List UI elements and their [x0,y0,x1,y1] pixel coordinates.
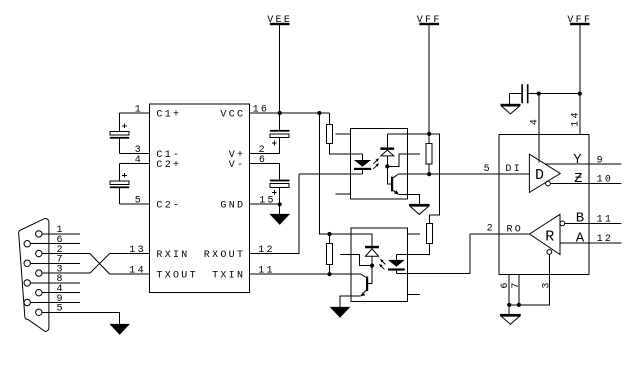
svg-text:D: D [535,167,544,184]
node DI junction [427,172,431,176]
node U4 pin 6 junction [507,303,511,307]
wire J1 pin 4 [42,284,80,295]
svg-text:R: R [545,229,554,246]
svg-text:VCC: VCC [220,109,245,120]
wire U4 input B with bubble [560,211,622,227]
U3 light arrows [379,259,385,269]
svg-text:15: 15 [259,196,276,207]
wire U3 emitter to ground [340,296,361,307]
svg-text:7: 7 [511,280,522,288]
svg-text:Z: Z [574,171,582,187]
capacitor C1 [110,113,129,154]
wire crossover TX/RX [90,254,110,275]
svg-text:6: 6 [259,155,267,166]
U2 NC stub bottom-left [336,193,351,195]
svg-text:13: 13 [129,245,146,256]
capacitor C2 [110,164,129,205]
optocoupler U3 body [351,228,407,302]
wire U1 pin 4 [119,155,149,166]
U3 NC stub top-right [407,233,420,235]
wire U1 pin 5 [119,196,149,207]
svg-text:11: 11 [258,266,275,277]
IC U4 RS-485 body [499,135,589,275]
svg-text:C2-: C2- [156,201,181,212]
wire J1 pin 1 [42,225,80,236]
wire VCC to U3 photodiode [330,234,373,246]
svg-text:RXIN: RXIN [156,250,189,261]
wire U1 pin 3 [119,145,149,156]
svg-text:V-: V- [229,160,246,171]
node cap-pin4 junction [537,92,541,96]
wire J1 pin 9 [30,294,80,305]
node GND junction at C4 [278,202,282,214]
svg-text:5: 5 [484,164,492,175]
receiver R triangle [530,214,561,254]
svg-text:B: B [576,211,584,227]
wire U4 pin 14 [571,25,582,135]
wire U2 emitter to ground [399,194,420,204]
svg-text:4: 4 [530,117,541,125]
node U2 base junction [385,164,389,168]
svg-text:5: 5 [135,196,143,207]
wire U3 base [368,266,372,284]
svg-text:9: 9 [597,155,605,166]
svg-text:12: 12 [258,245,275,256]
U3 NC stub base left [340,254,372,265]
U3 LED [388,254,405,273]
svg-text:3: 3 [541,280,552,288]
resistor R3 [327,232,333,276]
power VFF symbol right [567,15,592,26]
svg-text:GND: GND [220,201,245,212]
wire J1 pin 7 [30,255,80,266]
svg-text:RO: RO [507,225,524,236]
resistor R2 [426,134,432,174]
wire U4 output Y [545,152,622,168]
wire U4 output Z with bubble [546,171,622,187]
wire U1 pin 1 [119,104,149,115]
transistor Q in U3 [360,274,368,296]
svg-text:C1+: C1+ [156,109,181,120]
U2 LED [354,160,371,174]
ground GND1 at J1 pin 5 [109,324,130,335]
connector J1 pin circles [24,231,42,316]
wire U4 pin 7 [511,275,522,305]
wire U4 pin 3 [509,254,552,305]
wire U3 collector to TXIN [330,273,362,275]
wire U3 LED cathode to RO [396,234,470,274]
svg-text:11: 11 [597,215,614,226]
capacitor C4 [270,180,290,205]
wire to U1 pin 14 [110,265,150,276]
wire J1 pin 8 [30,274,80,285]
U2 LED anode wire [351,154,363,160]
wire DI line to U4 pin 5 [429,164,529,175]
ground GND2 at U2 emitter [409,204,430,215]
optocoupler U2 body [351,129,408,200]
wire J1 pin 5 to ground [42,304,120,324]
U3 photodiode [365,246,379,266]
wire U4 pin 6 [500,275,511,314]
U1 pin name labels [156,109,245,281]
node U4 pin 7 junction [517,303,521,307]
svg-text:4: 4 [135,155,143,166]
node VFF-pin14 junction [578,92,582,96]
node U3 base junction [370,264,374,268]
wire RO to U4 pin 2 [470,223,530,234]
resistor R1 [326,113,350,154]
svg-text:6: 6 [500,280,511,288]
capacitor C3 [270,113,290,145]
svg-text:RXOUT: RXOUT [204,250,246,261]
node VCC rail junction [317,111,321,115]
node VCC-VEE junction [278,111,282,115]
svg-text:1: 1 [135,104,143,115]
wire J1 pin 3 [42,264,90,275]
svg-text:DI: DI [505,164,522,175]
wire U2 supply rail to VFF node [387,133,429,135]
power VFF symbol middle [417,15,442,134]
U2 photodiode [380,134,394,167]
wire U4 pin 4 [530,94,541,163]
wire U1 pin 11 TXIN [250,266,330,277]
power VEE symbol [267,15,292,113]
svg-text:TXOUT: TXOUT [156,270,198,281]
wire U1 pin 12 RXOUT [250,174,300,256]
wire U1 pin 2 [250,138,280,156]
wire to U1 pin 13 [110,245,150,256]
svg-text:16: 16 [253,104,270,115]
wire U2 base [387,166,391,184]
wire U4 input A [560,230,622,246]
svg-text:14: 14 [129,265,146,276]
ground GND2 at C5 [501,104,521,114]
driver D triangle [529,154,560,192]
ground GND1 at U3 emitter [330,307,351,318]
svg-text:12: 12 [597,234,614,245]
wire U1 pin 6 [250,155,280,180]
capacitor C5 [510,84,580,104]
node VFF junction [427,132,431,136]
U4 label RO [507,225,524,236]
wire VCC to R3 branch [319,113,329,234]
connector J1 DB9 shell [19,219,49,332]
U2 light arrows [373,158,379,169]
ground GND1 at U1 pin 15 [269,214,290,225]
ground GND2 at U4 [500,314,521,324]
svg-text:10: 10 [597,175,614,186]
svg-text:A: A [576,230,585,246]
transistor Q in U2 [391,174,399,195]
wire VFF to R4 jog [429,134,439,224]
U4 label DI [505,164,522,175]
svg-text:2: 2 [487,223,495,234]
resistor R4 [396,224,432,255]
wire U1 pin 15 [250,196,280,207]
wire U2 collector to DI [398,173,429,175]
wire J1 pin 6 [30,235,80,246]
receiver enable bubble [547,250,552,255]
svg-text:5: 5 [57,304,65,315]
IC U1 MAX232 body [150,104,250,292]
wire U1 pin 16 VCC rail [250,104,330,115]
wire U2 LED cathode to RXOUT [299,173,362,175]
U3 NC stub bottom-right [407,293,420,295]
svg-text:Y: Y [573,152,582,168]
svg-text:14: 14 [571,110,582,127]
wire U2 base stub [387,154,420,167]
svg-text:TXIN: TXIN [212,270,245,281]
svg-text:C2+: C2+ [156,160,181,171]
wire J1 pin 2 [42,245,90,256]
U2 NC stub top-left [336,133,351,135]
